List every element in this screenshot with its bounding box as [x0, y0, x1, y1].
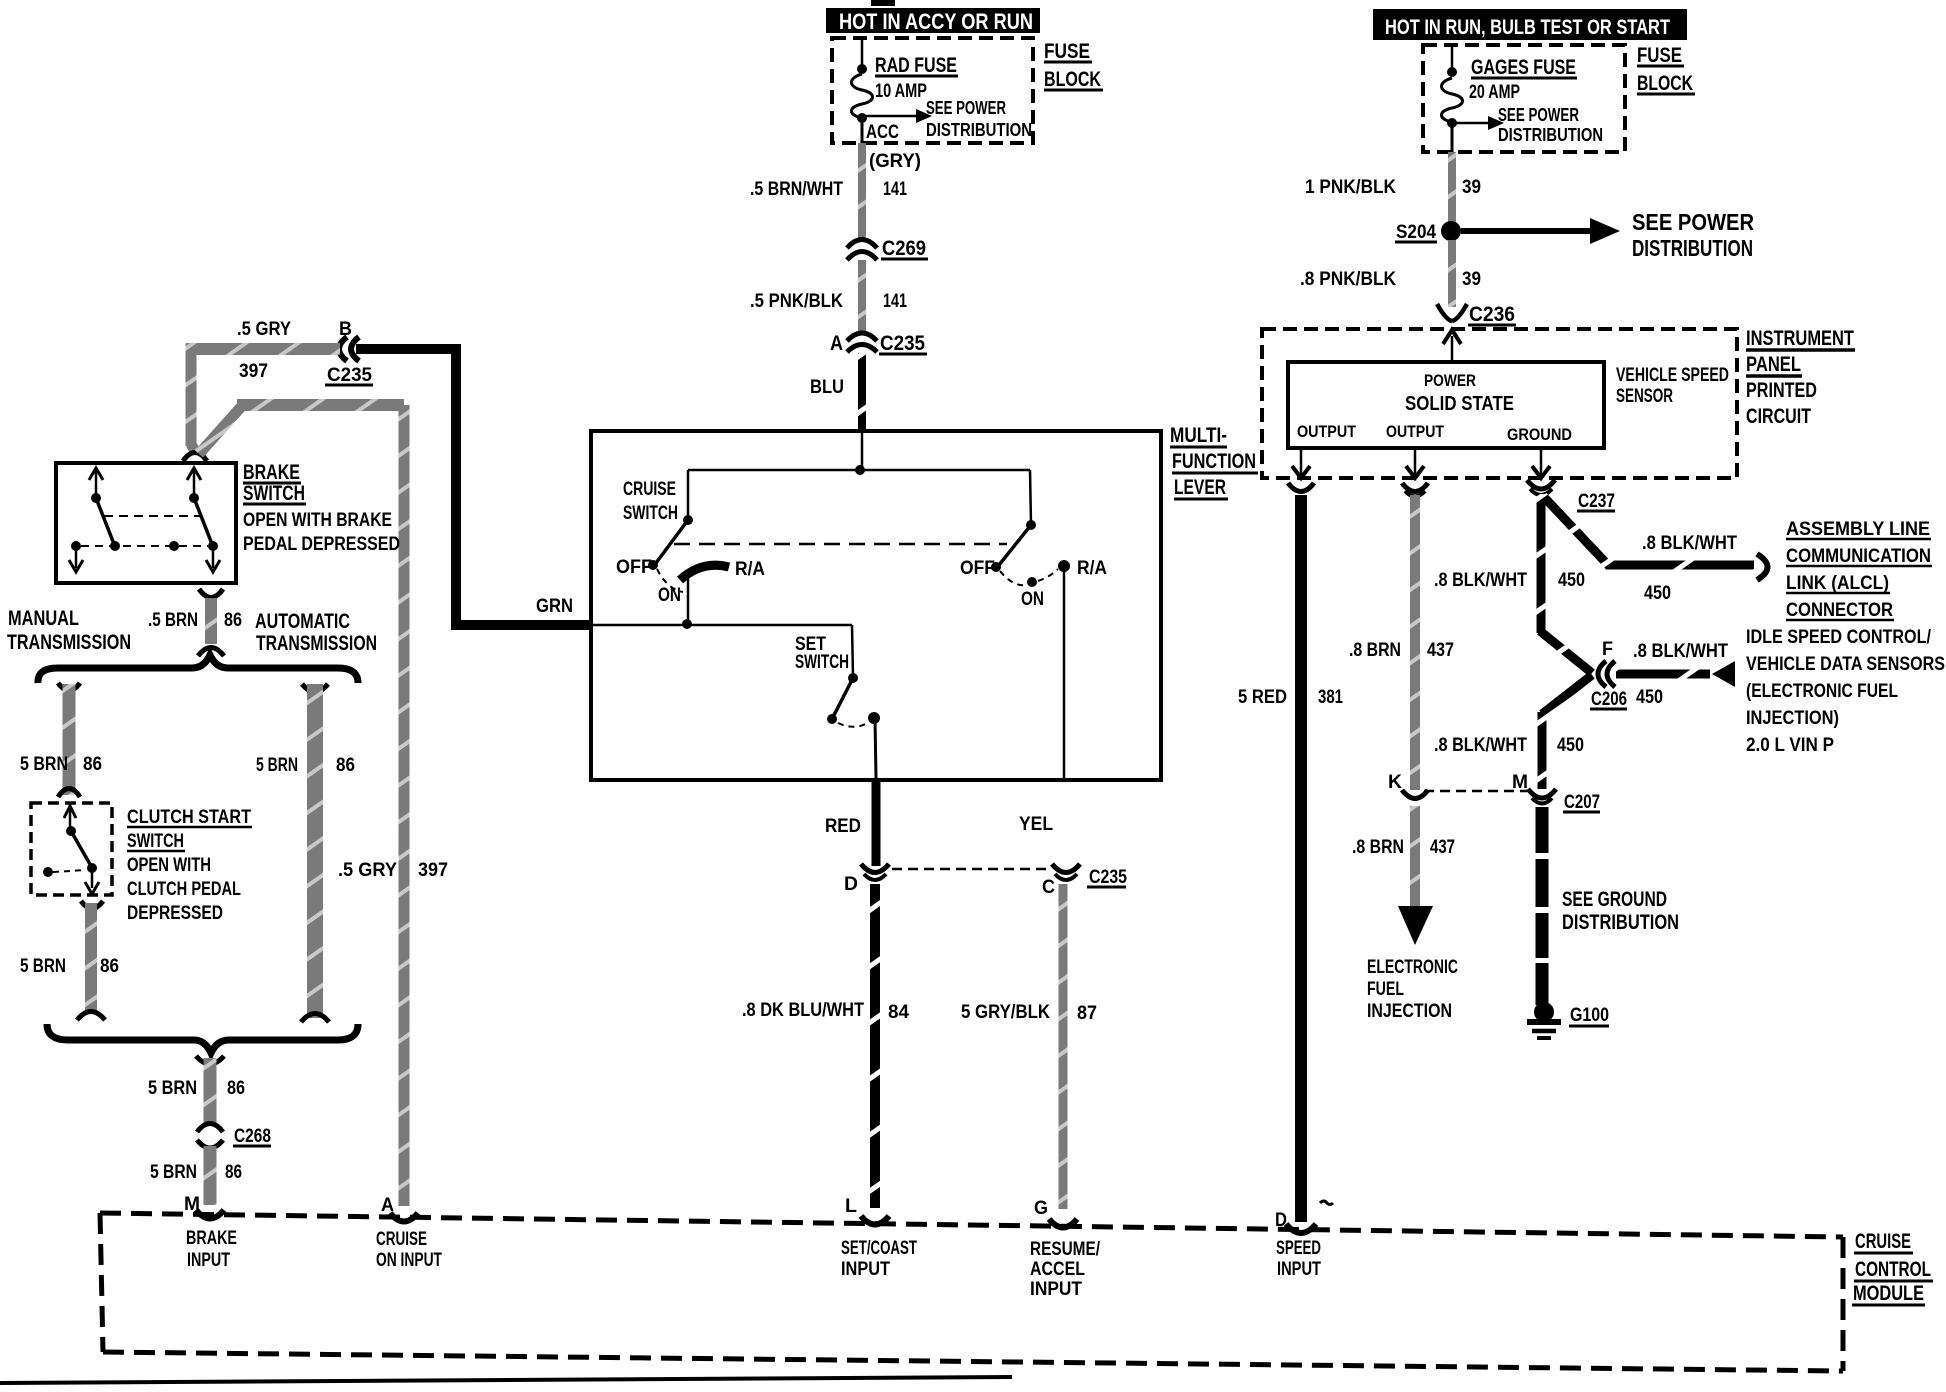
svg-text:397: 397	[239, 361, 268, 382]
svg-text:(ELECTRONIC FUEL: (ELECTRONIC FUEL	[1746, 681, 1898, 702]
vehicle speed sensor solid state box	[1288, 362, 1604, 448]
svg-text:CRUISE: CRUISE	[623, 479, 676, 500]
label IDLE SPEED CONTROL / VEHICLE DATA SENSORS	[1746, 627, 1945, 756]
svg-text:ACCEL: ACCEL	[1030, 1259, 1085, 1280]
svg-text:.8 PNK/BLK: .8 PNK/BLK	[1300, 269, 1396, 290]
noise mark near D	[1320, 1201, 1333, 1205]
svg-text:.5 GRY: .5 GRY	[237, 319, 291, 340]
svg-text:5 BRN: 5 BRN	[150, 1162, 197, 1183]
page edge line bottom	[0, 1377, 1012, 1383]
wire .5 GRY 397 from B to brake switch	[186, 344, 340, 453]
svg-text:BLOCK: BLOCK	[1044, 68, 1101, 91]
svg-text:SEE POWER: SEE POWER	[1498, 105, 1579, 125]
svg-text:POWER: POWER	[1424, 371, 1476, 390]
label MANUAL TRANSMISSION	[7, 607, 131, 654]
svg-text:M: M	[1512, 772, 1528, 793]
set switch label	[795, 634, 849, 673]
svg-text:DISTRIBUTION: DISTRIBUTION	[1562, 911, 1679, 934]
label GRN	[536, 596, 573, 617]
brake switch wiper dashed line	[81, 545, 208, 547]
label ASSEMBLY LINE COMMUNICATION LINK (ALCL) CONNECTOR	[1786, 519, 1932, 621]
connector hook above brace	[198, 648, 224, 657]
cruise switch right arm	[991, 525, 1031, 572]
svg-text:C235: C235	[327, 365, 372, 386]
arrow see power distribution from S204	[1461, 209, 1754, 261]
svg-text:OPEN WITH BRAKE: OPEN WITH BRAKE	[243, 510, 392, 531]
svg-text:FUNCTION: FUNCTION	[1172, 450, 1256, 473]
label ACC	[866, 122, 899, 143]
brace transmission split	[38, 655, 358, 683]
label POWER SOLID STATE	[1405, 371, 1514, 415]
svg-text:141: 141	[883, 291, 907, 312]
connector C237	[1527, 480, 1615, 512]
svg-text:DISTRIBUTION: DISTRIBUTION	[926, 120, 1032, 140]
svg-text:INPUT: INPUT	[1277, 1259, 1321, 1280]
brake switch left arm	[96, 498, 120, 551]
wire .8 BLK/WHT 450 to C207	[1434, 675, 1592, 789]
wire BLK to ground G100	[1536, 807, 1549, 1005]
connector C236	[1437, 303, 1516, 326]
wire R/A to YEL output	[1063, 568, 1066, 778]
wire .8 DK BLU/WHT 84	[742, 884, 909, 1208]
fuse block (left) dashed box	[832, 38, 1033, 143]
wire 5 BRN 86 automatic branch	[256, 684, 355, 1022]
connector ALCL	[1757, 554, 1768, 580]
svg-text:CRUISE: CRUISE	[376, 1229, 427, 1250]
brake switch left bottom contact	[69, 541, 83, 572]
brake switch left pole	[89, 468, 103, 503]
label CRUISE CONTROL MODULE	[1852, 1230, 1933, 1305]
svg-text:.8 BRN: .8 BRN	[1349, 640, 1401, 661]
label FUSE BLOCK (right)	[1637, 44, 1695, 95]
svg-text:C235: C235	[880, 332, 925, 355]
svg-text:2.0 L VIN P: 2.0 L VIN P	[1746, 735, 1834, 756]
label OFF (left)	[616, 557, 652, 578]
label ELECTRONIC FUEL INJECTION	[1367, 957, 1458, 1022]
mechanical linkage dashed line	[674, 543, 1007, 546]
svg-text:HOT IN ACCY OR RUN: HOT IN ACCY OR RUN	[839, 9, 1033, 34]
wire gages fuse stub	[1451, 45, 1454, 70]
svg-text:39: 39	[1462, 177, 1481, 198]
brake switch right output arrow	[206, 546, 220, 572]
clutch switch output arrow	[85, 868, 99, 894]
svg-text:SET/COAST: SET/COAST	[841, 1238, 917, 1259]
node GAGES fuse bottom	[1447, 118, 1457, 128]
svg-text:86: 86	[224, 610, 242, 631]
label OUTPUT OUTPUT GROUND pins	[1297, 422, 1572, 444]
label FUSE BLOCK (left)	[1044, 40, 1103, 91]
wire ON contact to GRN bus	[682, 575, 692, 629]
dashed connector line D to C	[892, 868, 1051, 871]
svg-text:IDLE SPEED CONTROL/: IDLE SPEED CONTROL/	[1746, 627, 1932, 648]
brake switch right open contact	[169, 541, 179, 551]
svg-text:BRAKE: BRAKE	[243, 461, 300, 484]
set switch	[827, 673, 880, 727]
arrow see power distribution (right fuse)	[1452, 105, 1603, 145]
svg-text:INJECTION): INJECTION)	[1746, 708, 1839, 729]
svg-text:L: L	[845, 1196, 857, 1217]
clutch switch pole	[64, 806, 76, 836]
splice S204	[1395, 221, 1461, 243]
svg-text:RESUME/: RESUME/	[1030, 1239, 1101, 1260]
connector below brake switch	[199, 589, 223, 598]
svg-text:87: 87	[1077, 1003, 1097, 1024]
wire ACC stub	[861, 122, 864, 143]
svg-text:A: A	[830, 332, 843, 355]
wire .8 BLK/WHT 450 to ALCL	[1543, 496, 1754, 604]
node RAD fuse bottom	[857, 113, 867, 123]
svg-text:C237: C237	[1578, 491, 1615, 512]
svg-text:SOLID STATE: SOLID STATE	[1405, 393, 1514, 415]
label OFF (right)	[960, 558, 995, 579]
fuse RAD FUSE 10 AMP	[852, 54, 959, 118]
wire .5 BRN 86	[148, 598, 242, 644]
svg-text:TRANSMISSION: TRANSMISSION	[256, 632, 377, 655]
svg-text:PANEL: PANEL	[1746, 353, 1801, 376]
svg-text:5 RED: 5 RED	[1238, 687, 1287, 708]
cruise switch right dashed throw	[1000, 569, 1058, 587]
label ON (right)	[1021, 589, 1044, 610]
svg-text:(GRY): (GRY)	[869, 151, 921, 172]
svg-text:C268: C268	[234, 1126, 271, 1147]
svg-text:10 AMP: 10 AMP	[875, 81, 927, 102]
label CLUTCH START SWITCH note	[127, 807, 252, 924]
brace transmission merge	[47, 1024, 358, 1053]
svg-text:ACC: ACC	[866, 122, 899, 143]
svg-text:141: 141	[883, 179, 907, 200]
cruise control module dashed box	[100, 1213, 1843, 1371]
label AUTOMATIC TRANSMISSION	[255, 610, 377, 655]
module pin M brake input	[184, 1194, 237, 1271]
svg-text:DISTRIBUTION: DISTRIBUTION	[1498, 125, 1603, 145]
svg-text:OFF: OFF	[616, 557, 652, 578]
svg-text:RED: RED	[825, 816, 861, 837]
clutch switch arm	[71, 831, 97, 873]
svg-text:MODULE: MODULE	[1853, 1282, 1924, 1305]
svg-text:.5 BRN/WHT: .5 BRN/WHT	[750, 179, 843, 200]
svg-text:C207: C207	[1564, 792, 1600, 813]
label YEL	[1019, 814, 1053, 835]
svg-text:450: 450	[1636, 687, 1663, 708]
svg-text:86: 86	[225, 1162, 242, 1183]
clutch switch open contact	[43, 867, 86, 877]
wire 5 BRN 86 below clutch switch	[20, 901, 119, 1020]
svg-text:GAGES FUSE: GAGES FUSE	[1471, 56, 1576, 79]
connector C235 pin C	[1042, 864, 1127, 898]
wire 5 BRN 86 to C268	[148, 1058, 245, 1124]
cruise switch left arm	[648, 520, 688, 570]
svg-text:RAD FUSE: RAD FUSE	[875, 54, 957, 77]
brake switch linkage dashed	[104, 515, 200, 517]
svg-text:C: C	[1042, 877, 1055, 898]
label MULTI-FUNCTION LEVER	[1170, 424, 1258, 499]
svg-text:G100: G100	[1570, 1005, 1609, 1026]
dashed connector line K to M	[1424, 790, 1527, 793]
fuse block (right) dashed box	[1423, 45, 1625, 152]
node RAD fuse top	[857, 64, 867, 74]
svg-text:OUTPUT: OUTPUT	[1297, 422, 1357, 441]
svg-text:FUSE: FUSE	[1637, 44, 1682, 67]
svg-text:BLU: BLU	[810, 377, 844, 398]
connector below output 2	[1402, 483, 1428, 497]
svg-text:CLUTCH START: CLUTCH START	[127, 807, 251, 828]
svg-text:5 BRN: 5 BRN	[148, 1078, 197, 1099]
svg-text:ON: ON	[1021, 589, 1044, 610]
svg-text:450: 450	[1557, 735, 1584, 756]
wire fuse feed stub	[861, 38, 864, 66]
wire .5 GRY 397 long run to cruise on input	[199, 405, 448, 1206]
svg-text:ON: ON	[658, 585, 681, 606]
svg-text:86: 86	[227, 1078, 245, 1099]
wire GRN inside box	[591, 624, 852, 627]
svg-text:LINK (ALCL): LINK (ALCL)	[1786, 573, 1889, 594]
svg-text:K: K	[1388, 772, 1402, 793]
svg-text:PRINTED: PRINTED	[1746, 379, 1817, 402]
connector M C207	[1512, 772, 1600, 813]
multi-function lever box	[591, 431, 1161, 780]
connector C268	[197, 1124, 271, 1149]
svg-text:GRN: GRN	[536, 596, 573, 617]
svg-text:381: 381	[1318, 687, 1343, 708]
svg-text:MANUAL: MANUAL	[8, 607, 79, 630]
svg-text:G: G	[1034, 1198, 1048, 1219]
module pin L set/coast input	[841, 1196, 917, 1280]
cruise switch left dashed throw	[657, 569, 683, 592]
arrow ground down	[1532, 448, 1550, 478]
svg-text:SWITCH: SWITCH	[243, 482, 305, 505]
svg-text:C206: C206	[1591, 689, 1627, 710]
connector C235 pin B	[237, 319, 373, 386]
arrow output 2 down	[1406, 448, 1424, 478]
arrow see power distribution (left fuse)	[862, 98, 1032, 140]
wire RED	[825, 778, 876, 866]
node R/A (right)	[1058, 558, 1107, 579]
wire .8 PNK/BLK 39	[1300, 240, 1481, 307]
svg-text:.8 BLK/WHT: .8 BLK/WHT	[1633, 641, 1728, 662]
svg-text:D: D	[844, 874, 858, 895]
svg-text:VEHICLE DATA SENSORS: VEHICLE DATA SENSORS	[1746, 654, 1945, 675]
connector below merge brace	[196, 1056, 224, 1064]
svg-text:86: 86	[83, 754, 102, 775]
svg-text:84: 84	[888, 1002, 909, 1023]
svg-text:SEE GROUND: SEE GROUND	[1562, 888, 1667, 911]
connector C206 pin F	[1590, 639, 1627, 710]
svg-text:ELECTRONIC: ELECTRONIC	[1367, 957, 1458, 978]
svg-text:450: 450	[1558, 570, 1585, 591]
power feed label HOT IN RUN, BULB TEST OR START	[1373, 9, 1687, 40]
svg-text:SPEED: SPEED	[1276, 1238, 1321, 1259]
svg-text:397: 397	[418, 860, 448, 881]
svg-text:CIRCUIT: CIRCUIT	[1746, 405, 1811, 428]
svg-text:.5 GRY: .5 GRY	[338, 860, 397, 881]
svg-text:SEE POWER: SEE POWER	[1632, 209, 1754, 235]
wire 5 BRN 86 to brake input	[150, 1146, 242, 1205]
cruise switch R/A arc (left)	[680, 559, 765, 580]
label ON (left)	[658, 585, 681, 606]
svg-text:SEE POWER: SEE POWER	[926, 98, 1006, 118]
label VEHICLE SPEED SENSOR	[1616, 365, 1729, 407]
svg-text:PEDAL DEPRESSED: PEDAL DEPRESSED	[243, 534, 400, 555]
svg-text:HOT IN RUN, BULB TEST OR START: HOT IN RUN, BULB TEST OR START	[1385, 16, 1670, 39]
svg-text:BLOCK: BLOCK	[1637, 72, 1693, 95]
svg-text:INJECTION: INJECTION	[1367, 1001, 1452, 1022]
module pin D speed input	[1275, 1210, 1321, 1280]
wire to box bottom	[1451, 127, 1454, 152]
svg-text:R/A: R/A	[1077, 558, 1107, 579]
connector below output 1	[1288, 483, 1314, 492]
wire cruise switch bus	[688, 469, 1030, 472]
svg-text:C236: C236	[1469, 303, 1515, 326]
wire BLU feed inside box	[861, 433, 864, 470]
svg-text:ON INPUT: ON INPUT	[376, 1250, 442, 1271]
svg-text:MULTI-: MULTI-	[1170, 424, 1227, 447]
svg-text:SENSOR: SENSOR	[1616, 386, 1673, 407]
wire to set switch	[852, 625, 853, 677]
svg-text:5 BRN: 5 BRN	[256, 755, 298, 776]
fuse GAGES FUSE 20 AMP	[1442, 56, 1578, 122]
svg-text:.8 BRN: .8 BRN	[1352, 837, 1404, 858]
svg-text:S204: S204	[1396, 222, 1436, 243]
svg-text:FUSE: FUSE	[1044, 40, 1090, 63]
svg-text:.8 BLK/WHT: .8 BLK/WHT	[1434, 570, 1527, 591]
wire set switch to RED output	[875, 718, 876, 778]
connector K C207	[1388, 772, 1428, 799]
wire 1 PNK/BLK 39	[1305, 152, 1481, 223]
svg-text:.8 DK BLU/WHT: .8 DK BLU/WHT	[742, 1000, 864, 1021]
clutch start switch box	[31, 803, 112, 895]
svg-text:86: 86	[336, 755, 355, 776]
svg-text:5 GRY/BLK: 5 GRY/BLK	[961, 1002, 1050, 1023]
svg-text:GROUND: GROUND	[1507, 425, 1572, 444]
svg-text:C235: C235	[1089, 867, 1127, 888]
label SEE GROUND DISTRIBUTION	[1562, 888, 1679, 934]
svg-text:CONTROL: CONTROL	[1855, 1258, 1931, 1281]
arrow power input up	[1443, 330, 1461, 362]
svg-text:5 BRN: 5 BRN	[20, 754, 68, 775]
brake switch right arm	[194, 498, 218, 551]
cruise switch (left) label	[623, 479, 678, 524]
module pin A cruise on input	[376, 1195, 442, 1271]
svg-text:CRUISE: CRUISE	[1855, 1230, 1911, 1253]
ground G100	[1527, 1002, 1609, 1038]
svg-text:.5 PNK/BLK: .5 PNK/BLK	[750, 291, 843, 312]
svg-text:.5 BRN: .5 BRN	[148, 610, 198, 631]
arrow output 1 down	[1292, 448, 1310, 478]
svg-text:LEVER: LEVER	[1174, 476, 1226, 499]
connector C235 pin A	[830, 332, 927, 355]
svg-text:YEL: YEL	[1019, 814, 1053, 835]
wire 5 GRY/BLK 87	[961, 884, 1097, 1209]
svg-text:COMMUNICATION: COMMUNICATION	[1786, 546, 1931, 567]
brake switch right pole	[187, 468, 201, 503]
svg-text:CONNECTOR: CONNECTOR	[1786, 600, 1893, 621]
node BLU junction	[855, 465, 865, 475]
wire GRN thick feed	[356, 349, 591, 625]
connector C269	[847, 237, 928, 260]
svg-text:F: F	[1602, 639, 1613, 660]
power feed label HOT IN ACCY OR RUN	[826, 0, 1040, 34]
svg-text:AUTOMATIC: AUTOMATIC	[255, 610, 350, 633]
connector at brake switch	[183, 453, 207, 462]
svg-text:TRANSMISSION: TRANSMISSION	[7, 631, 131, 654]
svg-text:ASSEMBLY LINE: ASSEMBLY LINE	[1786, 519, 1930, 540]
svg-text:C269: C269	[882, 237, 926, 260]
wire .5 BRN/WHT 141 (GRY)	[750, 143, 921, 238]
svg-text:450: 450	[1644, 583, 1671, 604]
svg-text:SWITCH: SWITCH	[127, 831, 184, 852]
svg-text:INPUT: INPUT	[187, 1250, 230, 1271]
wire .8 BRN 437 lower to EFI	[1352, 806, 1455, 945]
wire .8 BLK/WHT 450 from idle speed sensors	[1616, 641, 1735, 708]
svg-text:BRAKE: BRAKE	[186, 1228, 237, 1249]
wire .8 BLK/WHT 450 ground drop	[1434, 494, 1592, 673]
svg-text:39: 39	[1462, 269, 1481, 290]
svg-text:437: 437	[1430, 837, 1455, 858]
svg-text:SWITCH: SWITCH	[623, 503, 678, 524]
svg-text:5 BRN: 5 BRN	[20, 956, 66, 977]
svg-text:SWITCH: SWITCH	[795, 652, 849, 673]
cruise switch (right) pole	[1026, 470, 1036, 530]
label BRAKE SWITCH note	[243, 461, 400, 555]
module pin G resume/accel input	[1030, 1198, 1101, 1300]
wire .5 PNK/BLK 141	[750, 260, 907, 334]
svg-text:DEPRESSED: DEPRESSED	[127, 903, 223, 924]
svg-text:CLUTCH PEDAL: CLUTCH PEDAL	[127, 879, 241, 900]
svg-text:437: 437	[1427, 640, 1454, 661]
wire .8 BRN 437 upper	[1349, 495, 1454, 790]
svg-text:DISTRIBUTION: DISTRIBUTION	[1632, 235, 1753, 261]
svg-text:.8 BLK/WHT: .8 BLK/WHT	[1434, 735, 1527, 756]
svg-text:INPUT: INPUT	[1030, 1279, 1082, 1300]
node GAGES fuse top	[1447, 67, 1457, 77]
svg-text:86: 86	[100, 956, 119, 977]
svg-text:OUTPUT: OUTPUT	[1386, 422, 1445, 441]
instrument panel printed circuit dashed box	[1262, 329, 1737, 478]
svg-text:R/A: R/A	[735, 559, 765, 580]
wire 5 BRN 86 manual branch upper	[20, 683, 102, 797]
connector C235 pin D	[844, 864, 889, 895]
svg-text:INSTRUMENT: INSTRUMENT	[1746, 327, 1854, 350]
label INSTRUMENT PANEL PRINTED CIRCUIT	[1746, 327, 1855, 428]
svg-text:FUEL: FUEL	[1367, 979, 1404, 1000]
svg-text:OPEN WITH: OPEN WITH	[127, 855, 211, 876]
svg-text:INPUT: INPUT	[841, 1259, 890, 1280]
wire BLU into multi-function lever	[810, 353, 862, 431]
svg-text:VEHICLE SPEED: VEHICLE SPEED	[1616, 365, 1729, 386]
svg-text:1 PNK/BLK: 1 PNK/BLK	[1305, 177, 1396, 198]
cruise switch left pole	[683, 470, 693, 525]
wire 5 RED 381 speed input	[1238, 495, 1343, 1222]
svg-text:OFF: OFF	[960, 558, 995, 579]
svg-text:20 AMP: 20 AMP	[1469, 82, 1520, 103]
brake switch box	[56, 463, 236, 583]
svg-text:.8 BLK/WHT: .8 BLK/WHT	[1642, 533, 1737, 554]
